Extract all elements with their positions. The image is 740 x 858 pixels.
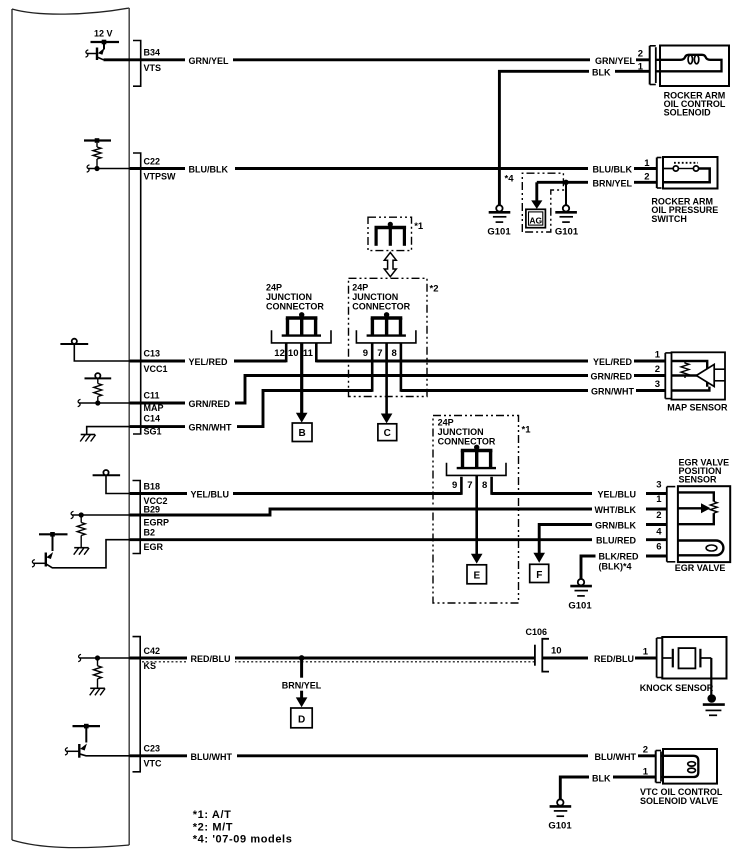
rocker arm oil control solenoid connector bracket + pins [638,46,656,85]
interchange double arrow [384,253,396,277]
svg-text:CONNECTOR: CONNECTOR [352,302,410,312]
svg-text:*1: *1 [414,221,424,232]
svg-text:SOLENOID: SOLENOID [664,108,712,118]
svg-text:VTS: VTS [144,63,162,73]
svg-text:1: 1 [638,62,644,73]
24P junction connector JC2 symbol [356,312,416,343]
svg-text:YEL/BLU: YEL/BLU [191,490,230,500]
dash-dot option enclosure *1 (JC3) [433,416,519,604]
connector C106 [526,627,562,672]
arrow into F [533,553,545,563]
wire BLK (VTC solenoid pin 1 to G101) [560,777,655,799]
svg-text:B: B [298,428,305,439]
svg-text:WHT/BLK: WHT/BLK [595,505,637,515]
svg-text:*4: '07-09 models: *4: '07-09 models [193,834,293,846]
svg-text:8: 8 [392,348,397,359]
svg-text:9: 9 [363,348,368,359]
label BLK (VTC) [589,771,613,784]
wire BLU/RED (B2 to EGR valve pin 4) [130,538,667,541]
svg-text:C22: C22 [144,156,161,166]
node RED/BLU branch to D [299,655,305,661]
svg-text:2: 2 [644,172,649,183]
label GRN/RED right [588,369,634,382]
svg-text:7: 7 [377,348,382,359]
svg-text:JUNCTION: JUNCTION [438,427,484,437]
connector bracket C22-SG1 [133,153,141,434]
svg-text:YEL/RED: YEL/RED [189,357,229,367]
svg-text:*2: *2 [430,284,439,295]
label BLK [589,65,615,78]
connector bracket C42-VTC [133,637,141,772]
svg-text:BLU/BLK: BLU/BLK [189,165,229,175]
svg-text:C11: C11 [144,391,160,401]
svg-text:D: D [298,715,305,726]
wire junction pin 8 drop (JC2) [400,343,403,392]
svg-text:(BLK)*4: (BLK)*4 [599,562,632,572]
label BLU/WHT left [187,749,237,762]
rocker arm oil control solenoid name [664,90,726,117]
label BLU/BLK right [588,162,634,175]
label RED/BLU left [187,651,235,664]
node BRN/YEL ground branch [563,180,568,185]
wire GRN/YEL (B34 to solenoid pin 2) [104,58,650,61]
svg-text:EGRP: EGRP [144,518,170,528]
wire YEL/RED right segment [316,360,665,363]
ground G101 (pressure switch) [555,205,579,237]
wire GRN/WHT (C14 to MAP pin 3 via junction) [130,391,373,427]
svg-text:3: 3 [656,479,661,490]
svg-text:*4: *4 [505,173,515,184]
svg-text:C: C [384,428,391,439]
svg-text:AG: AG [529,215,542,225]
wire BRN/YEL (pressure switch pin 2) [537,181,657,184]
svg-text:GRN/YEL: GRN/YEL [595,56,636,66]
C22 pull-up rail [84,138,111,143]
VTC oil control solenoid valve [661,749,717,784]
svg-text:2: 2 [655,364,660,375]
svg-text:E: E [473,571,480,582]
dash-dot option enclosure *2 (JC2) [349,278,428,396]
svg-text:8: 8 [482,480,487,491]
svg-text:KS: KS [144,661,157,671]
label BLU/WHT right [588,749,638,762]
svg-text:VCC1: VCC1 [144,364,168,374]
EGRP pull-down resistor [71,511,130,554]
svg-text:*1: A/T: *1: A/T [193,809,232,821]
wire BLU/WHT (C23 to VTC solenoid pin 2) [130,754,656,757]
rocker arm oil pressure switch connector bracket + pins [644,158,661,189]
wire YEL/BLU left segment [130,492,462,495]
label RED/BLU right [588,651,635,664]
label BLU/RED right [592,533,646,546]
svg-text:VTPSW: VTPSW [144,171,177,181]
svg-text:9: 9 [452,480,457,491]
svg-text:1: 1 [643,646,649,657]
svg-text:G101: G101 [487,227,511,238]
transistor Q2 EGR driver [32,534,130,568]
svg-text:BLU/RED: BLU/RED [596,536,636,546]
label WHT/BLK right [592,502,646,515]
label YEL/BLU right [592,487,646,500]
svg-text:11: 11 [303,348,314,359]
svg-text:JUNCTION: JUNCTION [266,292,312,302]
node B29 junction [79,512,84,517]
svg-text:C42: C42 [144,646,161,656]
svg-text:BLU/BLK: BLU/BLK [593,165,633,175]
wire RED/BLU (C42 to C106) [130,657,535,660]
dash-dot option enclosure AG [522,173,563,232]
24P junction connector JC3 name [438,418,496,447]
24P junction connector JC2 name [352,283,410,312]
svg-text:YEL/RED: YEL/RED [593,357,633,367]
node C42 junction [95,655,100,660]
svg-text:C106: C106 [526,627,548,637]
svg-text:10: 10 [551,646,562,657]
svg-text:JUNCTION: JUNCTION [352,292,398,302]
label GRN/WHT left [185,420,237,433]
signal ground SG1 symbol [80,427,129,442]
24P junction connector JC1 symbol [272,312,332,343]
wire YEL/BLU right segment [492,492,667,495]
rocker arm oil control solenoid [656,46,729,87]
svg-text:MAP: MAP [144,403,164,413]
box C [378,424,397,441]
svg-text:EGR VALVE: EGR VALVE [675,563,726,573]
svg-text:G101: G101 [555,227,579,238]
svg-text:GRN/RED: GRN/RED [590,372,632,382]
svg-text:GRN/RED: GRN/RED [189,399,231,409]
rocker arm oil pressure switch [663,157,718,189]
VCC2 source symbol (B18) [93,470,130,494]
svg-text:KNOCK SENSOR: KNOCK SENSOR [640,683,714,693]
svg-text:CONNECTOR: CONNECTOR [438,437,496,447]
svg-text:GRN/BLK: GRN/BLK [595,521,636,531]
svg-text:CONNECTOR: CONNECTOR [266,302,324,312]
svg-text:BRN/YEL: BRN/YEL [592,179,632,189]
svg-text:BLU/WHT: BLU/WHT [191,752,233,762]
wire junction pin 9 drop (JC3) [460,477,463,495]
KS input resistor network (C42) [78,654,129,695]
JC1 pin numbers 12 10 11 [274,348,313,359]
ground G101 (rocker solenoid BLK) [487,205,511,237]
wire YEL/RED left segment [130,360,287,363]
svg-text:12: 12 [274,348,285,359]
svg-text:SENSOR: SENSOR [679,475,718,485]
svg-text:C14: C14 [144,414,161,424]
svg-text:EGR: EGR [144,542,164,552]
24P junction connector JC3 symbol [447,445,507,476]
wire to G101 (pressure switch ground) [565,182,567,205]
wire junction pin 8 drop (JC3) [490,477,493,495]
MAP sensor [672,352,726,399]
svg-text:YEL/BLU: YEL/BLU [597,490,636,500]
svg-text:SOLENOID VALVE: SOLENOID VALVE [640,796,718,806]
svg-text:*1: *1 [522,425,532,436]
svg-text:1: 1 [655,350,661,361]
box F [530,564,549,582]
label YEL/RED right [588,354,634,367]
node C22 junction [94,166,99,171]
wire GRN/RED (C11 to MAP pin 2) [130,376,666,404]
chassis ground (knock sensor) [703,694,725,715]
wire BLK (solenoid pin 1 to G101) [499,71,649,205]
svg-text:3: 3 [655,379,660,390]
svg-text:GRN/YEL: GRN/YEL [189,56,230,66]
label YEL/BLU left [187,487,233,500]
svg-text:*2: M/T: *2: M/T [193,821,233,833]
dash-dot option enclosure *1 (top) [368,217,412,250]
wire RED/BLU (C106 to knock sensor) [543,657,657,660]
svg-text:12 V: 12 V [94,29,113,39]
box AG [526,209,546,227]
arrow BRN/YEL to D [296,658,308,707]
svg-text:GRN/WHT: GRN/WHT [189,423,232,433]
svg-text:F: F [536,570,542,581]
rocker arm oil pressure switch name [651,197,718,224]
shield dotted line [142,661,535,663]
wire GRN/BLK (EGR sensor pin 2 to F) [539,525,667,554]
svg-text:4: 4 [656,527,662,538]
mini junction connector (A/T option) [375,222,407,246]
svg-text:RED/BLU: RED/BLU [191,654,231,664]
svg-text:BLU/WHT: BLU/WHT [595,752,637,762]
svg-text:BLK/RED: BLK/RED [599,552,639,562]
label GRN/BLK right [592,518,646,531]
JC2 pin numbers 9 7 8 [363,348,397,359]
svg-text:24P: 24P [352,283,368,293]
svg-text:BRN/YEL: BRN/YEL [282,680,322,690]
svg-text:MAP SENSOR: MAP SENSOR [667,402,728,412]
svg-text:2: 2 [643,745,648,756]
svg-text:10: 10 [288,348,299,359]
wire GRN/WHT right segment [401,389,665,392]
label YEL/RED left [185,354,234,367]
ground G101 (EGR BLK/RED) [568,579,592,611]
VCC1 source symbol (C13) [60,339,129,361]
svg-text:C23: C23 [144,743,161,753]
svg-text:7: 7 [467,480,472,491]
box E [467,565,487,584]
svg-text:SWITCH: SWITCH [651,214,687,224]
svg-text:24P: 24P [438,418,454,428]
connector bracket B34 [133,41,141,87]
knock sensor connector bracket + pin [643,638,663,678]
wire junction pin 11 drop [315,343,318,362]
arrow JC3 pin 7 to E [471,475,483,563]
svg-text:C13: C13 [144,349,161,359]
label BLU/BLK left [185,162,235,175]
JC3 pin numbers 9 7 8 [452,480,487,491]
notes [193,809,293,845]
ground G101 (VTC solenoid) [548,799,572,831]
transistor Q1 VTS driver [86,42,105,60]
EGR valve position sensor + EGR valve body [678,486,730,562]
label GRN/YEL right [590,53,636,66]
label GRN/YEL left [185,53,233,66]
24P junction connector JC1 name [266,283,324,312]
label BLK/RED (BLK)*4 [596,550,647,573]
svg-text:2: 2 [638,48,643,59]
svg-text:VTC: VTC [144,759,163,769]
svg-text:RED/BLU: RED/BLU [594,654,634,664]
svg-text:G101: G101 [548,821,572,832]
svg-text:B18: B18 [144,481,161,491]
svg-text:B34: B34 [144,47,161,57]
wire BLK/RED (EGR valve pin 6 to G101) [581,556,667,579]
svg-text:6: 6 [656,541,661,552]
arrow into AG [531,182,542,209]
svg-text:GRN/WHT: GRN/WHT [591,387,634,397]
VTC driver rail (C23) [73,724,101,729]
wire WHT/BLK (B29 to EGR sensor pin 1) [130,509,667,515]
VCC source + resistor (C11 MAP pull-up) [85,373,112,403]
transistor Q2 EGR driver rail [39,532,68,537]
svg-text:B2: B2 [144,527,156,537]
arrow JC1 pin 10 to B [296,343,308,423]
box D [291,708,312,728]
svg-text:B29: B29 [144,504,161,514]
wire junction pin 12 drop [285,343,288,362]
box B [292,423,312,442]
svg-text:1: 1 [643,766,649,777]
arrow JC2 pin 7 to C [381,343,393,424]
label BRN/YEL right [588,176,634,189]
resistor R (VTPSW pull-up) [93,143,101,169]
svg-text:BLK: BLK [592,67,611,77]
label GRN/RED left [185,396,235,409]
wire stub C22 internal [87,165,130,172]
wire stub C11 internal [78,399,130,406]
VTC oil control solenoid valve name [640,787,723,806]
svg-text:24P: 24P [266,283,282,293]
svg-text:BLK: BLK [592,773,611,783]
EGR valve position sensor name [679,458,730,485]
wire junction pin 9 drop (JC2) [371,343,374,392]
label BRN/YEL (branch) [280,678,325,691]
svg-text:1: 1 [656,494,662,505]
connector bracket B18-EGR [133,481,141,554]
12V supply rail [91,40,120,45]
node C11 junction [95,400,100,405]
EGR sensor/valve connector bracket + pins [656,479,675,562]
MAP sensor connector bracket + pins [655,350,672,399]
label GRN/WHT right [588,384,636,397]
knock sensor [662,637,726,696]
svg-text:2: 2 [656,510,661,521]
svg-text:G101: G101 [568,600,592,611]
transistor Q3 VTC driver [65,726,130,758]
VTC solenoid connector bracket + pins [643,745,661,783]
svg-text:1: 1 [644,158,650,169]
wire BLU/BLK (C22 to pressure switch pin 1) [130,167,657,170]
ECM module outline [12,8,129,848]
